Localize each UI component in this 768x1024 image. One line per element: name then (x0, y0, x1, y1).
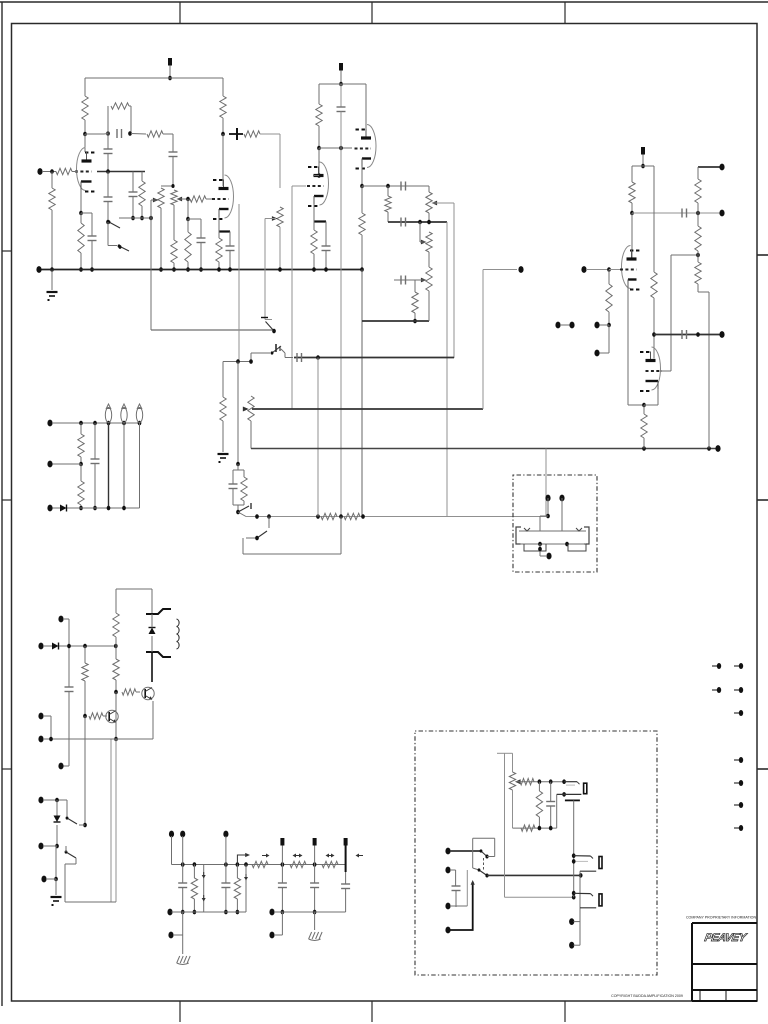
triode V2A (320, 162, 329, 205)
wire (172, 134, 174, 152)
connector pin (712, 689, 717, 691)
wire pot tops (161, 185, 174, 187)
junction (186, 267, 190, 272)
resistor R40 dropper (290, 861, 306, 867)
wire (141, 172, 143, 182)
wire (160, 208, 162, 270)
frame tick right 2 (757, 499, 768, 501)
junction (55, 798, 59, 803)
junction (168, 76, 172, 81)
terminal input jack (37, 168, 42, 175)
junction (607, 267, 611, 272)
wire (631, 203, 633, 213)
wire long D (453, 203, 455, 358)
junction (236, 510, 240, 515)
junction (193, 862, 197, 867)
wire (539, 516, 541, 531)
ground rail (39, 269, 362, 271)
terminal PT 2 (58, 763, 63, 770)
wire (107, 134, 109, 150)
junction (83, 132, 87, 137)
capacitor C6 bright (129, 191, 138, 193)
junction (131, 216, 135, 221)
wire (653, 166, 655, 272)
wire (642, 155, 644, 167)
wire (608, 312, 610, 325)
resistor R14 plate load V2a (316, 104, 322, 126)
wire (697, 251, 699, 255)
switch S7a relay (481, 851, 487, 857)
resistor R18 (412, 292, 418, 313)
resistor R2 grid stopper (56, 168, 72, 174)
wire long J (115, 739, 117, 902)
potentiometer VR6 bass wiper (421, 278, 427, 283)
capacitor C20 (65, 686, 74, 688)
junction (642, 403, 646, 408)
wire to grid V3a (609, 269, 622, 271)
junction (652, 332, 656, 337)
frame tick top 2 (371, 2, 373, 24)
terminal spk a (569, 918, 574, 925)
wire (55, 846, 57, 879)
wire input (42, 171, 56, 173)
junction (696, 253, 700, 258)
resistor R33 (89, 713, 103, 719)
wire long K (110, 739, 112, 902)
wire (80, 464, 82, 481)
heater pin 3 (136, 408, 142, 423)
wire to channel switch (264, 219, 266, 314)
frame tick top 1 (179, 2, 181, 24)
wire (340, 112, 342, 149)
wire long G (482, 270, 484, 410)
junction (386, 184, 390, 189)
resistor R10 (185, 232, 191, 262)
inductor L1 (177, 619, 180, 627)
capacitor C5 (169, 151, 178, 153)
terminal heater 2 (47, 461, 52, 468)
junction (106, 131, 110, 136)
wire (550, 782, 552, 802)
junction (278, 267, 282, 272)
switch SW1b (119, 246, 129, 251)
wire (84, 78, 86, 96)
wire (151, 589, 153, 614)
wire (107, 154, 109, 172)
junction (281, 862, 285, 867)
wire (387, 212, 389, 222)
transistor Q1 (106, 710, 118, 722)
resistor R27 (695, 179, 701, 203)
wire (51, 172, 53, 189)
svg-text:COPYRIGHT BUDDA AMPLIFICATION: COPYRIGHT BUDDA AMPLIFICATION 2009 (611, 994, 683, 998)
wire (450, 869, 456, 871)
junction (267, 514, 271, 519)
frame tick left 3 (2, 768, 12, 770)
terminal PT 1 (58, 616, 63, 623)
frame tick top 3 (564, 2, 566, 24)
wire (107, 106, 109, 134)
wire long C (291, 186, 293, 409)
junction (572, 859, 576, 864)
wire (182, 888, 184, 913)
wire (182, 865, 184, 884)
switch S7b relay (479, 870, 487, 876)
wire (51, 210, 53, 270)
junction (630, 211, 634, 216)
wire (318, 126, 320, 148)
wire (141, 206, 143, 218)
terminal gnd c (269, 932, 274, 939)
wire long E (446, 222, 448, 517)
wire (225, 888, 227, 913)
wire (193, 865, 195, 879)
wire (697, 203, 699, 213)
junction (128, 131, 132, 136)
frame tick right 1 (757, 254, 768, 256)
wire (473, 868, 479, 870)
resistor R9 grid V1b (190, 196, 206, 202)
terminal to power tube 2 (719, 164, 724, 171)
wire to grid V1a (72, 171, 78, 173)
terminal fx gnd (546, 553, 551, 560)
capacitor C7 (197, 237, 206, 239)
wire (80, 423, 82, 434)
ground mains (51, 896, 62, 898)
junction (138, 421, 142, 426)
capacitor C24 filter (310, 882, 319, 884)
wire (597, 352, 609, 354)
wire (281, 865, 283, 884)
junction (255, 536, 259, 541)
Peavey logo (704, 932, 749, 944)
junction (339, 514, 343, 519)
wire (229, 232, 231, 247)
wire (236, 899, 238, 912)
jack J3 sleeve (599, 894, 602, 906)
frame tick bottom 3 (564, 1001, 566, 1022)
junction (50, 267, 54, 272)
potentiometer VR5 middle wiper (421, 240, 427, 245)
wire (103, 715, 107, 717)
wire (104, 133, 108, 136)
wire (123, 423, 125, 508)
wire (150, 218, 152, 330)
resistor R8 (171, 240, 177, 263)
resistor R1 plate load V1a (82, 96, 88, 120)
wire grid V2a (292, 185, 306, 187)
wire supply rail V1 (85, 77, 223, 79)
resistor R30 (78, 434, 84, 457)
resistor R34 (113, 613, 119, 637)
capacitor C9 bypass V1b (226, 245, 235, 247)
junction (114, 690, 118, 695)
wire (218, 217, 220, 232)
power flag B+1 (168, 58, 172, 66)
wire (232, 470, 234, 484)
wire (233, 504, 244, 506)
resistor R29 (695, 262, 701, 284)
wire (361, 235, 363, 270)
wire (232, 489, 234, 506)
junction (562, 792, 566, 797)
junction (186, 217, 190, 222)
wire (428, 186, 430, 192)
wire (68, 619, 70, 687)
resistor R24 plate load V3b (651, 272, 657, 298)
wire (150, 200, 152, 218)
wire (63, 618, 69, 620)
wire (130, 106, 132, 134)
switch S6 standby (66, 852, 76, 858)
junction (79, 462, 83, 467)
wire tone mid rail (388, 221, 447, 223)
resistor R7 (139, 181, 145, 206)
wire plate V2b (365, 84, 367, 136)
bracket arrow (237, 855, 247, 865)
terminal jumper 1 (555, 322, 560, 329)
wire (200, 219, 202, 238)
junction (119, 245, 122, 249)
junction (249, 359, 253, 364)
wire (151, 652, 153, 682)
wire (107, 172, 109, 198)
wire B+ raw (43, 645, 116, 647)
wire (152, 701, 154, 739)
resistor R19 (220, 397, 226, 421)
test point (295, 855, 300, 857)
terminal mains L (38, 797, 43, 804)
title block dividers (700, 990, 726, 1001)
power flag B+3 node (313, 838, 317, 846)
wire (115, 692, 117, 739)
resistor R6 (147, 131, 163, 137)
wire (313, 204, 315, 222)
wire (586, 269, 609, 271)
wire (182, 935, 184, 954)
junction (228, 267, 232, 272)
test point 2 (203, 895, 205, 899)
wire to grid V2b (319, 147, 352, 149)
wire (281, 888, 283, 913)
junction (281, 910, 285, 915)
wire (251, 352, 270, 354)
junction (50, 169, 54, 174)
potentiometer VR2 volume B (171, 190, 177, 205)
wire (94, 464, 96, 509)
wire (512, 753, 514, 772)
wire plate V3b (653, 298, 655, 359)
wire (188, 218, 201, 220)
capacitor C25 filter (341, 883, 350, 885)
junction (172, 267, 176, 272)
wire (80, 457, 82, 464)
wire (520, 543, 586, 545)
wire (539, 544, 541, 556)
wire (450, 905, 456, 907)
wire (129, 105, 131, 107)
wire (132, 197, 134, 219)
capacitor C16 (229, 483, 238, 485)
terminal jumper 2 (569, 322, 574, 329)
wire (574, 944, 581, 946)
wire (697, 213, 699, 226)
potentiometer VR1 volume A (158, 188, 164, 208)
jack J1 sleeve (584, 783, 587, 794)
wire (697, 284, 699, 292)
junction (272, 329, 276, 334)
wire (55, 879, 57, 895)
junction (546, 514, 550, 519)
junction (236, 462, 240, 467)
wire (318, 84, 320, 104)
resistor R41 dropper (322, 861, 338, 867)
wire (345, 889, 347, 913)
junction (83, 714, 87, 719)
wire (203, 865, 205, 913)
terminal link D (594, 350, 599, 357)
wire plate V1a (84, 134, 86, 152)
wire return bus (246, 516, 546, 518)
junction (485, 874, 488, 878)
wire (361, 167, 363, 187)
wire (63, 765, 69, 767)
wire (671, 254, 698, 256)
wire plate V2a (313, 175, 319, 177)
wire (483, 269, 517, 271)
wire (151, 614, 153, 628)
wire loop (242, 538, 244, 554)
switch S2 lever (272, 346, 281, 353)
wire (139, 423, 141, 508)
wire (115, 680, 117, 692)
resistor R17 slope (385, 196, 391, 212)
chassis ground 1 (177, 956, 180, 963)
wire plate chain V1a (85, 133, 104, 135)
wire (513, 827, 557, 829)
wire (163, 133, 173, 135)
jack J5 sleeve (524, 544, 546, 551)
wire (455, 891, 457, 908)
junction (93, 506, 97, 511)
wire (43, 799, 67, 801)
jack J1 bar (565, 799, 580, 801)
wire cathode V1a (80, 190, 82, 214)
terminal out 3 (445, 903, 450, 910)
wire (538, 782, 540, 791)
capacitor C2 (104, 148, 113, 150)
switch S3 contact (250, 503, 252, 509)
capacitor C23 filter (278, 882, 287, 884)
wire PI out (698, 166, 722, 168)
capacitor C26 (452, 885, 461, 887)
wire reg top (116, 588, 152, 590)
resistor R5 (111, 103, 129, 109)
wire (107, 222, 109, 246)
wire (91, 241, 93, 270)
wire (428, 252, 430, 267)
wire cathode V3b (657, 389, 659, 405)
wiper arrow (243, 407, 249, 412)
power flag B+4 node (344, 838, 348, 846)
wire (284, 353, 286, 358)
resistor R11 plate load V1b (220, 96, 226, 118)
wire (187, 262, 189, 270)
potentiometer VR7 gain wiper (243, 407, 249, 412)
cathode tie V2a (314, 220, 326, 222)
wire relay out (487, 874, 581, 876)
capacitor C15 boost (296, 353, 298, 362)
frame tick left 1 (2, 250, 12, 252)
wire (173, 934, 183, 936)
resistor R13 cathode V1b (216, 238, 222, 262)
wire (116, 738, 153, 740)
wire plate V3a (631, 213, 633, 259)
chassis ground 2 (309, 932, 312, 939)
wire (187, 199, 189, 219)
wire bass wiper (394, 279, 426, 281)
svg-text:COMPANY PROPRIETARY INFORMATIO: COMPANY PROPRIETARY INFORMATION (686, 916, 756, 920)
wire NFB (654, 334, 722, 336)
wire (698, 291, 709, 293)
wire loop (494, 838, 496, 856)
wire B+ chain (172, 864, 347, 866)
junction (418, 220, 422, 225)
wire mid wiper (420, 241, 426, 243)
wire (222, 362, 224, 398)
wire (79, 824, 85, 826)
junction (317, 146, 321, 151)
junction (107, 421, 111, 426)
capacitor C8 coupling (229, 133, 243, 135)
wire (260, 133, 280, 135)
junction (572, 891, 576, 896)
wire (151, 636, 153, 652)
wire (238, 512, 246, 517)
wire (265, 319, 272, 321)
junction (313, 910, 317, 915)
wire tone input (362, 185, 429, 187)
dashed enclosure fx (513, 475, 597, 572)
wire (608, 325, 610, 353)
terminal mains N (38, 843, 43, 850)
junction (313, 862, 317, 867)
junction (106, 169, 110, 174)
test point (262, 855, 267, 857)
wire (85, 151, 87, 153)
junction (316, 355, 320, 360)
wire (250, 353, 252, 362)
junction (181, 862, 185, 867)
wire (222, 421, 224, 452)
capacitor C12 treble (400, 182, 402, 191)
wire (50, 716, 52, 739)
wire (172, 157, 174, 187)
wire (268, 517, 270, 529)
wire (456, 905, 467, 907)
wire (325, 222, 327, 247)
junction (221, 132, 225, 137)
wire long H (545, 449, 547, 517)
capacitor C18 NFB (681, 330, 683, 339)
resistor R20 (241, 477, 247, 501)
test point (358, 855, 363, 857)
wire to grid V1b (206, 198, 212, 200)
terminal fx send (545, 495, 550, 502)
wire wiper drive (265, 218, 276, 220)
resistor R31 (78, 481, 84, 505)
junction (83, 644, 87, 649)
